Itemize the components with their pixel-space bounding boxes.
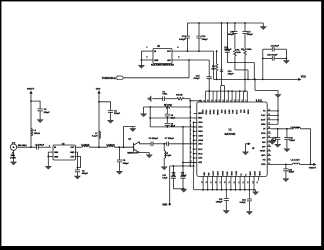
wire vertical x183 [182, 127, 184, 167]
svg-text:18: 18 [268, 136, 270, 138]
wire bottom ground rail [194, 189, 256, 191]
base bias stub with ground [124, 127, 136, 148]
svg-text:XTAL: XTAL [162, 93, 168, 96]
wire to transistor base [115, 146, 134, 148]
svg-text:22: 22 [227, 100, 229, 102]
svg-text:DOUT: DOUT [261, 120, 266, 122]
svg-text:15: 15 [211, 181, 213, 183]
svg-text:VDD: VDD [96, 88, 101, 90]
U2 pin 3 wire [172, 57, 209, 61]
svg-text:29: 29 [212, 100, 214, 102]
Q1 collector wire [140, 142, 152, 144]
inductor L1 [31, 129, 40, 136]
VDD rail wire [214, 51, 299, 80]
crystal load caps box: capacitor C18 [263, 45, 287, 51]
svg-text:4: 4 [190, 125, 191, 127]
svg-text:1: 1 [49, 145, 50, 147]
crystal Y1 [162, 91, 176, 101]
svg-text:5: 5 [190, 130, 191, 132]
U1 top pins [206, 91, 248, 102]
capacitor C20 [271, 129, 281, 148]
wire crystal jumper [206, 90, 248, 92]
inductor L7 [92, 131, 100, 138]
svg-text:GND2: GND2 [225, 109, 227, 114]
svg-text:23: 23 [268, 114, 270, 116]
svg-text:GND7: GND7 [250, 171, 252, 176]
wire [89, 146, 107, 148]
U2 pin 4 wire (VDD out) [172, 46, 214, 52]
node XTAL1 open arrow [147, 96, 162, 102]
U1 left pin numbers and names [190, 112, 192, 163]
svg-text:MIX1: MIX1 [198, 113, 202, 115]
svg-text:30: 30 [208, 100, 210, 102]
top ground rail [187, 22, 263, 24]
capacitor C11 [180, 166, 187, 189]
capacitor C23 (bottom) [216, 190, 230, 214]
U2 pin 1 wire [141, 47, 153, 51]
capacitor C17 + resistor R3 chain [241, 23, 253, 79]
svg-text:C19 100pF: C19 100pF [267, 54, 278, 56]
ground on right bus [275, 95, 281, 98]
svg-text:100pF: 100pF [289, 172, 295, 174]
svg-text:C1 100pF: C1 100pF [35, 144, 45, 146]
svg-text:120nH: 120nH [34, 133, 41, 135]
svg-text:19: 19 [268, 132, 270, 134]
capacitor C12 [179, 23, 190, 51]
node VBATT arrow [309, 163, 317, 170]
node GND test point [162, 166, 171, 206]
U1 bottom pin numbers and names [201, 181, 259, 183]
svg-text:L3 4.7µH: L3 4.7µH [291, 126, 300, 129]
node U1 refdes top-right [256, 99, 264, 102]
inductor L2 shunt to ground [161, 144, 172, 170]
svg-text:C6 220pF: C6 220pF [149, 138, 159, 140]
svg-text:1000pF: 1000pF [216, 202, 223, 204]
capacitor C3 [74, 168, 88, 180]
svg-text:L6 82nH: L6 82nH [106, 144, 115, 146]
svg-text:50Ω SMA: 50Ω SMA [18, 144, 27, 147]
svg-text:16: 16 [215, 181, 217, 183]
svg-text:17: 17 [220, 181, 222, 183]
svg-text:21: 21 [268, 123, 270, 125]
capacitor C15 chain [224, 23, 254, 79]
svg-text:24: 24 [268, 109, 270, 111]
capacitor C13 [196, 23, 208, 51]
svg-text:1000pF: 1000pF [224, 49, 232, 51]
capacitor C22 [283, 164, 295, 181]
wire caps box left rail [262, 49, 264, 79]
wire B to U1 [150, 117, 197, 119]
junction top rail dots [198, 22, 246, 24]
U1 right pin numbers and names [268, 109, 270, 165]
connector J1 [10, 142, 27, 159]
svg-text:L5 82nH: L5 82nH [81, 144, 90, 146]
svg-text:VDD: VDD [301, 75, 306, 78]
svg-text:20: 20 [234, 181, 236, 183]
svg-text:23: 23 [248, 181, 250, 183]
svg-text:2: 2 [146, 57, 147, 59]
svg-text:0.1µH: 0.1µH [166, 155, 172, 157]
svg-text:TSET: TSET [233, 110, 235, 114]
svg-text:0.47µF: 0.47µF [240, 201, 247, 204]
svg-text:100pF: 100pF [247, 34, 254, 36]
svg-text:3: 3 [190, 121, 191, 123]
svg-text:VBATT: VBATT [309, 167, 317, 170]
wire rail y166 [170, 165, 194, 167]
ground bottom rail end [252, 190, 258, 195]
svg-text:23: 23 [223, 100, 225, 102]
svg-text:100pF: 100pF [202, 39, 209, 41]
capacitor C2 branch [31, 101, 50, 123]
Q1 emitter ground [140, 153, 153, 158]
svg-text:ROUT: ROUT [237, 110, 239, 115]
capacitor C21 [284, 129, 296, 152]
wire row11 to U1 [183, 162, 197, 164]
svg-text:100pF: 100pF [228, 73, 235, 75]
U1 bottom pins [203, 176, 259, 189]
ground stub (crystal branch) [141, 107, 151, 117]
wire caps bottom link + ground [173, 188, 187, 192]
svg-text:C7 220pF: C7 220pF [165, 138, 175, 140]
svg-text:220pF: 220pF [114, 113, 121, 115]
svg-text:17: 17 [246, 100, 248, 102]
capacitor C1 (series) [35, 144, 51, 149]
svg-text:IFOUT: IFOUT [213, 171, 215, 176]
svg-text:1: 1 [190, 112, 191, 114]
transistor Q1 [127, 138, 139, 154]
svg-text:R5 100k: R5 100k [164, 104, 173, 106]
svg-text:470pF: 470pF [193, 77, 200, 80]
capacitor C19 [262, 54, 287, 60]
svg-text:7: 7 [190, 139, 191, 141]
svg-text:100pF: 100pF [181, 175, 187, 177]
svg-text:VBATT: VBATT [27, 88, 35, 91]
svg-text:19: 19 [229, 181, 231, 183]
svg-text:L4 4.7µH: L4 4.7µH [291, 159, 300, 162]
power VBATT symbol [27, 88, 35, 148]
svg-text:MVDD: MVDD [222, 170, 224, 176]
svg-text:C18 5pF: C18 5pF [271, 45, 280, 47]
wire VBATT out line [271, 163, 292, 165]
svg-text:21: 21 [238, 181, 240, 183]
svg-text:11: 11 [190, 156, 192, 158]
svg-text:3: 3 [178, 57, 179, 59]
svg-text:12: 12 [268, 163, 270, 165]
svg-text:12: 12 [190, 161, 192, 163]
svg-text:CLKO: CLKO [261, 115, 266, 117]
svg-text:8: 8 [190, 142, 191, 144]
capacitor C6 (series) [149, 138, 167, 146]
svg-text:GND: GND [54, 152, 59, 154]
svg-text:1: 1 [146, 47, 147, 49]
capacitor C5 shunt [116, 147, 129, 174]
svg-text:MIX2: MIX2 [198, 118, 202, 120]
svg-text:22: 22 [268, 118, 270, 120]
svg-text:ADJ: ADJ [167, 59, 171, 62]
ground stub pin row6 right [269, 138, 275, 145]
svg-text:TX/ENABLE: TX/ENABLE [102, 77, 117, 80]
svg-text:2: 2 [190, 116, 191, 118]
svg-text:9: 9 [190, 147, 191, 149]
U3 left grounds [45, 152, 53, 169]
svg-text:25: 25 [257, 181, 259, 183]
svg-text:GND3: GND3 [198, 131, 203, 133]
svg-text:20: 20 [234, 100, 236, 102]
svg-text:18: 18 [225, 181, 227, 183]
svg-text:21: 21 [231, 100, 233, 102]
wire J1 to C1 [17, 146, 37, 148]
capacitor C24 (bottom) [240, 190, 253, 215]
U2 left ground [138, 51, 144, 68]
U3 output wire [76, 146, 83, 148]
svg-text:24: 24 [219, 100, 221, 102]
svg-text:100pF: 100pF [289, 140, 295, 142]
wire corner to VDD line [301, 129, 311, 165]
op-amp U1 MAX7032 main IC [197, 102, 267, 176]
svg-text:0.1µH: 0.1µH [92, 135, 98, 137]
ground J1 [10, 150, 16, 165]
op-amp U2 regulator box [151, 46, 175, 66]
capacitor C9 [165, 118, 176, 128]
svg-text:MMBT5179: MMBT5179 [127, 152, 138, 154]
svg-text:15: 15 [268, 149, 270, 151]
TXENABLE input tag [102, 76, 124, 80]
svg-text:220pF: 220pF [44, 112, 51, 114]
svg-text:10: 10 [190, 152, 192, 154]
svg-text:32: 32 [200, 100, 202, 102]
svg-text:0.1µF: 0.1µF [162, 178, 168, 180]
svg-text:0.01µF: 0.01µF [179, 39, 186, 41]
svg-text:VDD5: VDD5 [261, 164, 265, 166]
wire U1 left bus [193, 122, 195, 189]
svg-text:6: 6 [190, 134, 191, 136]
svg-text:TL: TL [246, 174, 248, 176]
capacitor C8 [165, 107, 176, 119]
power VDD symbol (LNA bias) [96, 88, 101, 147]
capacitor C14 (series on U2 pin3 net, to U1 top pin) [193, 60, 211, 102]
capacitor C10 [162, 166, 176, 189]
svg-text:GND8: GND8 [259, 171, 261, 176]
U1 left pins [194, 114, 197, 163]
capacitor C7 (series) [165, 138, 197, 146]
svg-text:R4 1M: R4 1M [176, 94, 182, 97]
svg-text:14: 14 [206, 181, 208, 183]
U1 top pin numbers and names [200, 100, 248, 102]
svg-text:13: 13 [268, 158, 270, 160]
wire from top rail to crystal drive pins [221, 23, 225, 102]
svg-text:31: 31 [204, 100, 206, 102]
svg-text:GND: GND [162, 204, 167, 206]
ground exposed pad inside U1 [242, 142, 255, 155]
svg-text:GND: GND [70, 152, 75, 154]
resistor R1 [211, 50, 218, 80]
U1 right pins [267, 111, 278, 164]
wire VDD rail to U1 gnd bus [255, 79, 278, 124]
wire node B vertical [149, 107, 151, 127]
svg-text:100pF: 100pF [228, 34, 235, 36]
svg-text:GND5: GND5 [218, 171, 220, 176]
U3 pin5 wire to C3 [76, 152, 81, 168]
ground caps box [283, 49, 289, 63]
svg-text:680pF: 680pF [82, 173, 89, 175]
inductor L3 [291, 126, 301, 129]
ground (top rail right end) [260, 23, 266, 30]
svg-text:MAX8510EXK25: MAX8510EXK25 [151, 64, 175, 67]
svg-text:14: 14 [268, 154, 270, 156]
capacitor C16b (on crystal drive line) [220, 70, 235, 76]
svg-text:GND6: GND6 [232, 171, 234, 176]
svg-text:DF: DF [263, 128, 265, 130]
svg-text:20: 20 [268, 127, 270, 129]
U2 pin 2 wire [141, 57, 153, 60]
svg-text:25: 25 [215, 100, 217, 102]
svg-text:100pF: 100pF [123, 163, 130, 165]
wire TXENABLE to U2 pin3 [124, 60, 190, 78]
svg-text:GND: GND [154, 60, 159, 62]
svg-text:18: 18 [242, 100, 244, 102]
inductor L4 [291, 159, 300, 165]
capacitor C16 + resistor R2 chain [228, 23, 248, 79]
transistor U3 SAW filter box [49, 143, 76, 160]
junction right bus dots [277, 110, 279, 121]
svg-text:PKDET: PKDET [260, 151, 265, 153]
resistor R5 (crystal lower branch) [149, 104, 190, 108]
node VDD arrow [298, 75, 306, 81]
resistor R4 [176, 94, 190, 100]
inductor L6 [106, 144, 115, 147]
svg-text:16: 16 [268, 145, 270, 147]
wire VDD net from pin row4 (right) [271, 128, 293, 130]
svg-text:24: 24 [252, 181, 254, 183]
svg-text:MAX7032: MAX7032 [225, 133, 236, 136]
inductor L5 [81, 144, 90, 147]
wire C to U1 [150, 126, 197, 128]
svg-text:GND: GND [54, 157, 59, 159]
svg-text:19: 19 [238, 100, 240, 102]
svg-text:22: 22 [243, 181, 245, 183]
svg-text:13: 13 [201, 181, 203, 183]
wire XTAL2 to U1 top pin1 [190, 101, 202, 103]
capacitor C4 branch [99, 102, 121, 123]
wire XTAL2 vertical [189, 99, 191, 166]
wire chain to jumper [244, 79, 246, 91]
svg-text:IFI2: IFI2 [263, 160, 266, 162]
